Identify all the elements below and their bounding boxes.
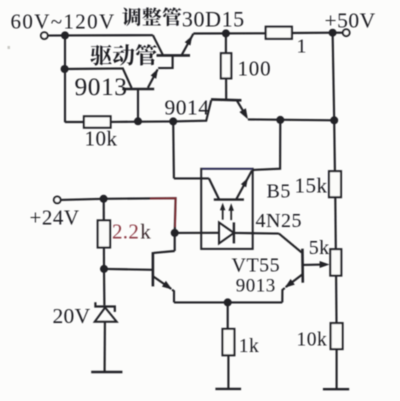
transistor Q4 9013 base bar [152, 252, 155, 286]
wire opto emitter out [252, 120, 280, 170]
wire to opto collector [174, 177, 209, 179]
node zener junction [100, 265, 108, 273]
transistor Q3 base lead [173, 100, 211, 121]
transistor Q2 emitter [148, 70, 158, 88]
svg-text:100: 100 [238, 57, 272, 81]
svg-text:9013: 9013 [75, 72, 128, 101]
node input junction [61, 31, 69, 39]
svg-text:30D15: 30D15 [182, 6, 245, 31]
resistor R15k 15k [329, 171, 341, 197]
ground right [323, 388, 349, 390]
label 驱动管 char 驱 [90, 45, 111, 66]
node right rail junction [330, 116, 338, 124]
potentiometer R5k 5k [330, 249, 341, 275]
svg-text:1: 1 [297, 35, 307, 57]
svg-text:10k: 10k [85, 126, 118, 150]
svg-text:k: k [140, 220, 151, 244]
svg-text:4N25: 4N25 [256, 210, 302, 232]
svg-text:VT55: VT55 [232, 255, 281, 277]
node opto emitter junction [276, 116, 284, 124]
resistor R100 100 [221, 53, 231, 78]
opto box top edge blue tint [202, 168, 253, 170]
transistor Q4 collector [154, 251, 175, 253]
node LED anode junction [171, 229, 179, 237]
wire +24V to R2.2k node [61, 199, 104, 200]
wire zener stem [103, 269, 106, 306]
node output junction [329, 29, 337, 37]
svg-text:1k: 1k [239, 336, 259, 357]
svg-text:+24V: +24V [30, 206, 80, 230]
opto phototransistor emitter [236, 171, 252, 199]
wire zener to ground [104, 322, 106, 371]
paper speck [8, 46, 11, 49]
transistor Q2 emitter arrow [151, 69, 158, 79]
label 调整管 char 调 [122, 8, 141, 26]
ground center [215, 388, 241, 390]
zener VD1 triangle [95, 308, 117, 322]
transistor Q1 collector [153, 35, 163, 55]
opto light arrow 2 head [228, 203, 234, 211]
wire R10k to collector node [111, 120, 174, 123]
wire top rail left [65, 34, 153, 36]
svg-text:2.2: 2.2 [112, 220, 139, 244]
transistor Q5 collector to pot wiper [303, 264, 323, 266]
wire LED cathode out [234, 232, 279, 235]
wire left rail to R10k [65, 121, 84, 123]
resistor R2.2k stem top [103, 199, 105, 221]
wire zener node to Q4 base [104, 268, 153, 271]
terminal +24V [54, 197, 61, 204]
node driver collector junction [134, 117, 142, 125]
transistor Q2 9013 driver base bar [122, 88, 154, 91]
transistor Q5 base lead [279, 234, 302, 253]
potentiometer wiper arrow [320, 261, 330, 268]
node driver base junction [61, 65, 69, 73]
wire LED anode [175, 232, 219, 234]
transistor Q2 collector [137, 89, 139, 121]
wire R100 stem bottom [225, 78, 227, 99]
wire R5k to R10k [335, 276, 338, 324]
zener VD1 cathode bar [95, 302, 114, 312]
opto phototransistor collector [209, 178, 219, 199]
svg-text:5k: 5k [309, 237, 330, 259]
transistor Q5 emitter [286, 274, 303, 287]
resistor R1k 1k [223, 329, 235, 355]
svg-text:10k: 10k [297, 330, 328, 351]
wire driver base [65, 68, 132, 88]
wire red chromatic tint [150, 198, 176, 227]
svg-text:9013: 9013 [236, 276, 276, 297]
wire Q3 emitter to right rail [248, 118, 334, 121]
wire right rail to R15k [333, 120, 336, 171]
opto light arrow 1 [222, 206, 224, 220]
svg-text:15k: 15k [295, 174, 328, 198]
wire left rail vertical [64, 35, 66, 122]
transistor Q3 emitter [237, 101, 247, 117]
wire R1k to ground [227, 355, 229, 388]
wire control node down [172, 121, 175, 178]
transistor Q4 emitter [154, 277, 172, 289]
svg-text:20V: 20V [53, 304, 91, 328]
wire top rail mid [193, 32, 265, 34]
node control junction [169, 117, 177, 125]
node R1k junction [224, 298, 232, 306]
resistor R2.2k 2.2k [98, 220, 110, 247]
wire emitter jog [158, 56, 172, 68]
wire Q4 emitter corner [172, 290, 174, 303]
terminal +50V output [343, 29, 350, 36]
transistor Q5 emitter arrow [285, 279, 295, 288]
opto phototransistor base bar [214, 198, 244, 200]
resistor R10k left 10k [84, 116, 111, 127]
svg-text:B5: B5 [267, 181, 291, 203]
label 驱动管 char 动 [113, 44, 134, 65]
label 调整管 char 整 [142, 7, 161, 25]
resistor R2.2k stem bottom [103, 248, 105, 269]
svg-text:+50V: +50V [325, 9, 376, 33]
svg-text:9014: 9014 [165, 95, 210, 119]
node R100 junction [222, 29, 230, 37]
wire Q5 emitter corner [282, 288, 284, 302]
wire emitter common rail [174, 301, 282, 303]
transistor Q5 VT55 base bar [301, 249, 304, 283]
terminal 60V~120V input [41, 32, 48, 39]
wire R1 to output node [292, 32, 333, 34]
transistor Q1 emitter arrow [185, 36, 193, 46]
node R2.2k junction [100, 195, 108, 203]
wire +24V node to corner [104, 198, 176, 233]
transistor Q3 9014 base bar [211, 98, 241, 102]
wire R1k stem top [227, 302, 229, 329]
transistor Q3 emitter arrow [239, 108, 248, 119]
resistor R10k right 10k [331, 323, 343, 349]
ground left [91, 371, 122, 373]
opto phototransistor emitter arrow [241, 178, 248, 187]
wire to output terminal [335, 32, 343, 34]
opto light arrow 1 head [220, 203, 226, 211]
transistor Q4 emitter arrow [162, 281, 172, 290]
transistor Q1 30D15 base bar [157, 54, 191, 57]
wire right rail upper [333, 33, 335, 121]
transistor Q1 emitter [182, 34, 194, 55]
wire input to node [48, 34, 65, 36]
opto light arrow 2 [230, 206, 232, 220]
wire R15k to R5k [334, 197, 337, 249]
resistor R1 1 [266, 27, 292, 39]
wire R100 stem top [225, 33, 227, 53]
wire R10k to ground [336, 349, 338, 389]
label 驱动管 char 管 [136, 44, 157, 65]
svg-text:60V~120V: 60V~120V [11, 10, 116, 34]
optocoupler U1 4N25 box [201, 169, 253, 249]
opto LED triangle [219, 222, 234, 243]
wire anode node down [174, 233, 176, 251]
label 调整管 char 管 [163, 7, 182, 26]
opto LED cathode bar [233, 222, 235, 243]
